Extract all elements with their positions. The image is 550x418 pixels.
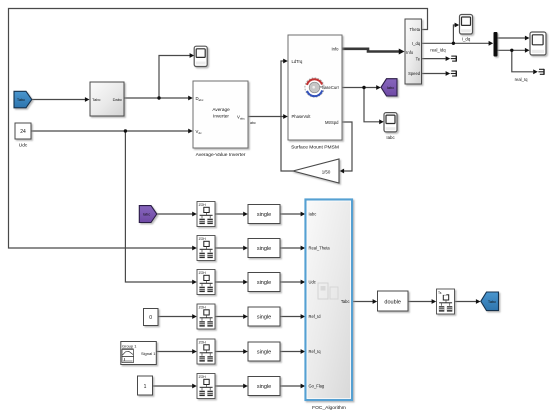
- wire signal builder to RT5: [156, 351, 194, 353]
- svg-text:Tabc: Tabc: [341, 299, 350, 304]
- svg-text:Info: Info: [332, 46, 340, 51]
- subsystem FOC_Algorithm (selected, blue border): [306, 200, 353, 401]
- svg-text:Iabc: Iabc: [143, 212, 150, 217]
- wire PhaseCurr to goto Iabc: [342, 87, 379, 89]
- wire V_abc to PhaseVolt: [248, 116, 286, 118]
- svg-text:single: single: [257, 315, 271, 321]
- conversion single1: [248, 205, 280, 224]
- svg-text:PhaseVolt: PhaseVolt: [292, 114, 312, 119]
- svg-text:Theta: Theta: [410, 27, 421, 32]
- junction on Dabc wire: [157, 96, 160, 99]
- svg-text:Real_Theta: Real_Theta: [309, 246, 331, 251]
- wire RT7 to goto Tabc: [454, 301, 479, 303]
- arrowheads: [85, 97, 90, 102]
- rate transition RT6: [197, 374, 215, 399]
- subsystem Tabc to Dabc: [90, 82, 124, 116]
- wire Theta feedback long loop to Real_Theta row: [9, 9, 428, 249]
- junction on I_dq wire: [452, 42, 455, 45]
- conversion single5: [248, 342, 280, 361]
- signal builder Group 1: [121, 342, 157, 365]
- svg-text:I_dq: I_dq: [462, 37, 471, 42]
- svg-text:LdTrq: LdTrq: [292, 59, 303, 64]
- wire I_dq to demux: [422, 42, 492, 44]
- junction on PhaseCurr wire: [362, 86, 365, 89]
- svg-text:Udc: Udc: [309, 280, 316, 285]
- svg-text:Tabc: Tabc: [488, 299, 496, 304]
- scope I_dq: [460, 15, 473, 35]
- scope real currents (2 inputs): [530, 32, 546, 55]
- svg-text:Speed: Speed: [408, 71, 421, 76]
- constant 0: [144, 309, 159, 326]
- wire single2 to FOC Real_Theta: [280, 247, 303, 249]
- wire RT3 to single3: [215, 281, 246, 283]
- wire from-tag Iabc to RT1: [157, 213, 195, 215]
- svg-text:Surface Mount PMSM: Surface Mount PMSM: [291, 145, 339, 151]
- svg-text:Signal 1: Signal 1: [141, 351, 156, 356]
- svg-text:Dabc: Dabc: [113, 97, 122, 102]
- wire RT1 to single1: [215, 213, 246, 215]
- svg-text:dc: dc: [199, 131, 203, 135]
- svg-text:Inverter: Inverter: [213, 114, 229, 119]
- svg-text:Ref_Id: Ref_Id: [309, 314, 322, 319]
- svg-text:real_Iq: real_Iq: [515, 77, 528, 82]
- wire single1 to FOC Iabc: [280, 213, 303, 215]
- wire branch down to scope Iabc: [364, 88, 382, 122]
- terminator Te: [451, 56, 457, 62]
- svg-text:0: 0: [149, 315, 152, 321]
- wire double to RT7: [408, 301, 434, 303]
- svg-text:Go_Flag: Go_Flag: [309, 384, 325, 389]
- conversion single6: [248, 377, 280, 396]
- constant 1: [138, 376, 153, 395]
- svg-text:Ref_Iq: Ref_Iq: [309, 349, 322, 354]
- wire branch down to terminator real_Iq: [512, 50, 533, 72]
- from tag Tabc (blue): [14, 91, 32, 108]
- svg-text:single: single: [257, 280, 271, 286]
- goto tag Iabc (purple): [381, 79, 397, 96]
- gain 1/50: [293, 159, 339, 183]
- wire single6 to FOC Go_Flag: [280, 385, 303, 387]
- svg-text:MtrSpd: MtrSpd: [325, 120, 339, 125]
- svg-text:Tabc: Tabc: [92, 97, 100, 102]
- bus wire Info to bus selector (thick): [342, 49, 401, 52]
- wire single5 to FOC Ref_Iq: [280, 351, 303, 353]
- motor icon inside PMSM: [305, 78, 324, 97]
- wire single4 to FOC Ref_Id: [280, 316, 303, 318]
- svg-text:single: single: [257, 384, 271, 390]
- conversion single4: [248, 307, 280, 326]
- wire Tabc from-tag to Tabc2Dabc block: [32, 99, 88, 101]
- svg-text:Iabc: Iabc: [309, 212, 317, 217]
- svg-text:abc: abc: [199, 98, 204, 102]
- svg-text:Iabc: Iabc: [387, 85, 394, 90]
- rate transition RT3: [197, 270, 215, 295]
- rate transition RT7: [437, 289, 455, 314]
- svg-text:Average: Average: [212, 107, 230, 112]
- wire Udc branch down to Udc rate transition row: [125, 131, 194, 282]
- subsystem Surface Mount PMSM: [288, 35, 342, 140]
- svg-text:abc: abc: [240, 117, 245, 121]
- svg-text:Info: Info: [406, 50, 414, 55]
- svg-text:Tabc: Tabc: [17, 97, 25, 102]
- terminator real_Iq: [538, 69, 544, 75]
- wire branch up to scope I_dq: [453, 25, 457, 43]
- demux bar: [494, 32, 498, 57]
- rate transition RT1: [197, 202, 215, 227]
- wire RT5 to single5: [215, 351, 246, 353]
- wire Dabc to Average Inverter D_abc: [124, 97, 191, 99]
- junction on demux lower output: [510, 49, 513, 52]
- wire const 0 to RT4: [158, 316, 195, 318]
- wire Speed to terminator: [422, 73, 446, 75]
- wire Te to terminator: [422, 58, 446, 60]
- rate transition RT5: [197, 339, 215, 364]
- constant 24: [15, 123, 31, 139]
- svg-text:FOC_Algorithm: FOC_Algorithm: [312, 405, 346, 411]
- svg-text:PhaseCurr: PhaseCurr: [319, 85, 340, 90]
- rate transition RT2: [197, 236, 215, 261]
- scope Iabc: [384, 113, 397, 132]
- wire Udc 24 to Average Inverter V_dc: [31, 130, 191, 132]
- svg-text:single: single: [257, 212, 271, 218]
- conversion single3: [248, 273, 280, 292]
- svg-text:24: 24: [20, 129, 26, 135]
- junction on Udc wire: [124, 129, 127, 132]
- svg-text:1: 1: [144, 384, 147, 390]
- svg-text:single: single: [257, 350, 271, 356]
- wire FOC Tabc to double: [352, 301, 375, 303]
- wire RT4 to single4: [215, 316, 246, 318]
- wire const 1 to RT6: [153, 385, 195, 387]
- wire demux out bottom to scope: [498, 49, 528, 51]
- svg-text:double: double: [384, 300, 401, 306]
- wire RT2 to single2: [215, 247, 246, 249]
- conversion single2: [248, 239, 280, 258]
- from tag Iabc (purple): [139, 206, 157, 223]
- svg-text:Average-Value Inverter: Average-Value Inverter: [196, 152, 246, 158]
- wire MtrSpd to gain input: [342, 122, 352, 171]
- svg-text:Te: Te: [416, 56, 421, 61]
- scope1 (unnamed): [194, 46, 207, 66]
- wire single3 to FOC Udc: [280, 281, 303, 283]
- terminator Speed: [451, 71, 457, 77]
- goto tag Tabc (blue): [481, 292, 499, 311]
- svg-text:real_Idq: real_Idq: [430, 48, 446, 53]
- svg-text:Udc: Udc: [19, 143, 28, 149]
- subsystem Average-Value Inverter: [193, 81, 248, 148]
- wire gain output to LdTrq: [281, 61, 293, 171]
- wire branch up to scope1: [159, 56, 192, 99]
- svg-text:I_dq: I_dq: [412, 41, 421, 46]
- svg-text:Group 1: Group 1: [122, 344, 137, 349]
- wire demux out top to scope: [498, 37, 528, 39]
- svg-text:Iabc: Iabc: [386, 135, 395, 140]
- svg-text:1/50: 1/50: [322, 169, 331, 174]
- bus selector: [405, 19, 422, 84]
- wire RT6 to single6: [215, 385, 246, 387]
- svg-text:abc: abc: [250, 121, 256, 125]
- svg-text:Ts: Ts: [438, 291, 442, 295]
- conversion double: [378, 291, 409, 311]
- svg-text:single: single: [257, 246, 271, 252]
- rate transition RT4: [197, 304, 215, 329]
